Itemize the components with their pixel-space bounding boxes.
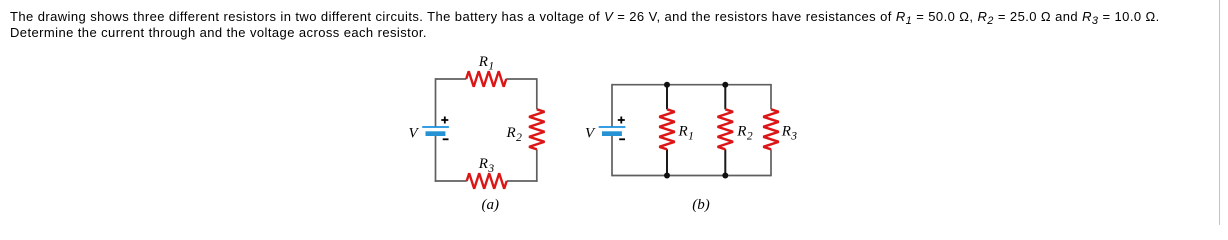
wire: (a) top-right segment [506, 78, 537, 80]
battery V (a) : thin + plate [422, 126, 449, 128]
svg-text:R: R [478, 54, 488, 70]
svg-text:2: 2 [516, 132, 522, 144]
wire: (b) branch R1 upper [666, 85, 668, 110]
wire: (b) branch R2 upper [724, 85, 726, 110]
svg-text:V: V [409, 126, 420, 142]
problem text line 1 [10, 10, 1160, 23]
battery V (a) : thick - plate [426, 131, 446, 136]
wire: (a) bottom-right segment [507, 180, 538, 182]
svg-text:(a): (a) [482, 197, 500, 213]
wire: (b) branch R2 lower [724, 149, 726, 175]
junction node: top of R2 branch [722, 82, 728, 88]
battery V (b) : thick - plate [602, 131, 622, 136]
wire: (b) bottom rail [612, 175, 771, 177]
wire: (b) right lower segment [770, 149, 772, 176]
wire: (a) left lower segment [435, 136, 437, 182]
resistor R1 (a, top) [466, 71, 506, 87]
svg-text:R: R [478, 156, 488, 172]
svg-text:2: 2 [747, 130, 753, 142]
wire: (a) top-left segment [436, 78, 467, 80]
wire: (a) right lower segment [536, 149, 538, 182]
svg-text:1: 1 [688, 130, 694, 142]
wire: (a) right upper segment [536, 78, 538, 109]
resistor R2 (a, right) [529, 109, 545, 149]
battery V (a) : minus sign [443, 138, 449, 140]
battery V (b) : plus sign [618, 117, 625, 124]
junction node: bottom of R1 branch [664, 173, 670, 179]
wire: (b) branch R1 lower [666, 149, 668, 175]
svg-text:V: V [585, 126, 596, 142]
wire: (b) right upper segment [770, 84, 772, 109]
resistor R3 (a, bottom) [467, 173, 507, 189]
svg-text:1: 1 [488, 61, 494, 73]
resistor R2 (b) [718, 109, 734, 149]
battery V (b) : thin + plate [599, 126, 626, 128]
wire: (b) left lower segment [611, 136, 613, 176]
resistor R1 (b) [659, 109, 675, 149]
svg-text:R: R [678, 123, 688, 139]
svg-text:3: 3 [790, 130, 797, 142]
junction node: top of R1 branch [664, 82, 670, 88]
wire: (b) top rail [612, 84, 771, 86]
wire: (b) left upper segment [611, 84, 613, 127]
svg-text:(b): (b) [692, 197, 710, 213]
wire: (a) bottom-left segment [435, 180, 467, 182]
wire: (a) left upper segment [435, 78, 437, 127]
battery V (b) : minus sign [619, 138, 625, 140]
resistor R3 (b) [763, 109, 779, 149]
problem text line 2 [10, 26, 427, 39]
svg-text:3: 3 [487, 163, 494, 175]
svg-text:R: R [736, 123, 746, 139]
battery V (a) : plus sign [441, 117, 448, 124]
svg-text:R: R [506, 125, 516, 141]
junction node: bottom of R2 branch [722, 173, 728, 179]
svg-text:R: R [781, 123, 791, 139]
